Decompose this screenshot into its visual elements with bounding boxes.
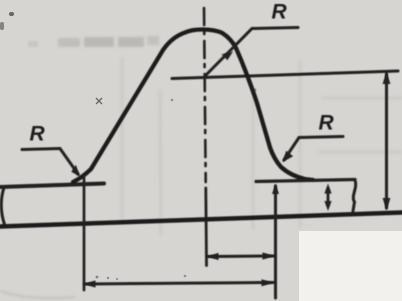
- svg-text:R: R: [319, 112, 335, 135]
- svg-text:R: R: [30, 123, 46, 146]
- svg-text:R: R: [272, 1, 288, 24]
